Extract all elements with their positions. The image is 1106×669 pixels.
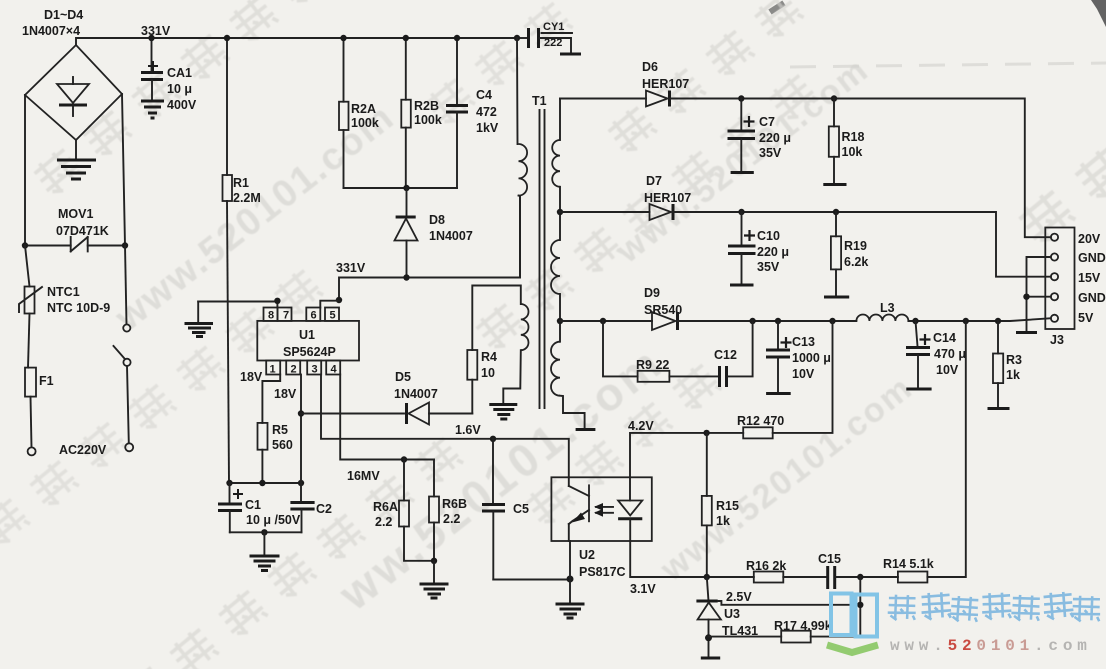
svg-text:2.5V: 2.5V: [726, 590, 752, 604]
logo text blue: [887, 591, 1100, 622]
svg-text:1.6V: 1.6V: [455, 423, 481, 437]
svg-text:R6A: R6A: [373, 500, 398, 514]
wire 18V node: [229, 482, 301, 484]
svg-text:AC220V: AC220V: [59, 443, 107, 457]
svg-text:6: 6: [311, 310, 317, 322]
svg-text:1000 μ: 1000 μ: [792, 351, 831, 365]
svg-text:C10: C10: [757, 229, 780, 243]
wire 20V rail left: [560, 98, 646, 100]
svg-text:3.1V: 3.1V: [630, 582, 656, 596]
node dot R3 top: [995, 318, 1001, 324]
ground below bridge: [57, 160, 96, 179]
wire drain 331V: [339, 196, 520, 300]
capacitor C15: [828, 566, 898, 589]
svg-text:35V: 35V: [759, 146, 782, 160]
wire 5V rail right: [908, 318, 1050, 321]
wire bridge left leg: [24, 95, 26, 246]
svg-text:5V: 5V: [1078, 311, 1094, 325]
svg-text:CY1: CY1: [543, 21, 564, 33]
node dot secondary D7 tap: [557, 209, 563, 215]
node dot clamp/D8: [403, 185, 409, 191]
svg-text:1N4007: 1N4007: [394, 387, 438, 401]
svg-text:1k: 1k: [1006, 368, 1020, 382]
node dot C13 top: [775, 318, 781, 324]
svg-text:4.2V: 4.2V: [628, 419, 654, 433]
svg-text:GND: GND: [1078, 251, 1106, 265]
svg-text:472: 472: [476, 105, 497, 119]
diode D9: [652, 312, 678, 330]
svg-text:18V: 18V: [240, 370, 263, 384]
svg-text:3: 3: [312, 364, 318, 376]
resistor R14: [898, 321, 966, 583]
resistor R3: [988, 321, 1010, 409]
svg-text:T1: T1: [532, 94, 547, 108]
node dot U2 emitter ground: [567, 576, 574, 583]
inductor L3: [856, 315, 908, 322]
svg-text:C15: C15: [818, 552, 841, 566]
node dot C2 top: [298, 480, 304, 486]
T1 secondary winding upper: [552, 99, 560, 213]
resistor R4: [467, 286, 521, 414]
transformer T1 core: [539, 110, 541, 408]
resistor R12: [743, 321, 832, 438]
svg-text:R9 22: R9 22: [636, 358, 669, 372]
node dot R2B top: [403, 35, 409, 41]
svg-text:1kV: 1kV: [476, 121, 499, 135]
node dot secondary D9 tap: [557, 318, 563, 324]
T1 auxiliary winding: [521, 304, 529, 350]
svg-text:GND: GND: [1078, 291, 1106, 305]
node dot C1 top: [226, 480, 232, 486]
node dot R2A top: [340, 35, 346, 41]
wire 1.6V to U2 collector: [493, 439, 569, 478]
U1 pin 2: [286, 361, 300, 375]
svg-text:1k: 1k: [716, 514, 730, 528]
optocoupler U2 PS817C: [551, 477, 651, 579]
node dot R19 top: [833, 209, 839, 215]
capacitor C10: [728, 212, 756, 285]
node dot snubber right: [749, 318, 755, 324]
logo book icon: [827, 594, 878, 653]
U1 pin 8: [264, 308, 278, 321]
svg-text:R5: R5: [272, 423, 288, 437]
diode D5: [407, 403, 473, 425]
svg-text:10: 10: [481, 366, 495, 380]
resistor R6B: [429, 460, 439, 561]
thermistor NTC1: [19, 246, 42, 314]
node dot C15 R14: [857, 574, 863, 580]
wire aux winding to ground: [503, 350, 521, 403]
ground below C1 C2: [250, 532, 280, 570]
U1 pin 5: [325, 308, 339, 321]
wire pin4 to 16MV line: [340, 375, 434, 460]
resistor R17: [709, 631, 861, 643]
wire pin6 tie to pin5: [320, 301, 339, 308]
wire 20V rail: [670, 99, 1051, 238]
svg-text:www.520101.com: www.520101.com: [890, 637, 1092, 655]
node dot C10 top: [738, 209, 744, 215]
shunt regulator U3 TL431: [696, 577, 860, 657]
ground aux winding: [489, 405, 517, 420]
capacitor C4: [446, 38, 468, 188]
node dot CA1 top: [148, 35, 154, 41]
diode D8: [395, 188, 418, 277]
wire 15V rail left: [560, 211, 650, 213]
node dot C7 top: [738, 95, 744, 101]
svg-text:1: 1: [270, 364, 276, 376]
svg-text:C14: C14: [933, 331, 956, 345]
svg-text:R16 2k: R16 2k: [746, 559, 786, 573]
capacitor C1: [218, 483, 243, 532]
svg-text:R3: R3: [1006, 353, 1022, 367]
node dot pin5: [336, 297, 342, 303]
svg-text:J3: J3: [1050, 333, 1064, 347]
node dot R12 top: [829, 318, 835, 324]
svg-text:400V: 400V: [167, 98, 197, 112]
ground below CA1: [141, 101, 164, 118]
svg-text:PS817C: PS817C: [579, 565, 626, 579]
node dot U3 anode R17: [705, 634, 712, 641]
svg-text:1N4007×4: 1N4007×4: [22, 24, 80, 38]
svg-text:R19: R19: [844, 239, 867, 253]
capacitor C13: [766, 321, 792, 394]
svg-text:D7: D7: [646, 174, 662, 188]
svg-text:18V: 18V: [274, 387, 297, 401]
wire 5V rail left: [560, 320, 652, 322]
svg-text:C2: C2: [316, 502, 332, 516]
svg-text:1N4007: 1N4007: [429, 229, 473, 243]
svg-text:D5: D5: [395, 370, 411, 384]
node dot MOV left: [22, 242, 28, 248]
wire pin1 to R5: [262, 375, 280, 423]
diode D6: [646, 91, 670, 107]
node dot R18 top: [831, 95, 837, 101]
svg-text:R2A: R2A: [351, 102, 376, 116]
wire pin2 column: [300, 375, 302, 484]
svg-text:222: 222: [544, 37, 562, 49]
svg-text:2: 2: [291, 364, 297, 376]
svg-text:MOV1: MOV1: [58, 207, 93, 221]
node dot D8 bottom on drain wire: [403, 274, 409, 280]
svg-text:U3: U3: [724, 607, 740, 621]
svg-text:C12: C12: [714, 348, 737, 362]
ground bar J3: [1016, 331, 1037, 334]
capacitor C14: [906, 321, 932, 389]
svg-text:7: 7: [283, 310, 289, 322]
resistor R2B: [401, 38, 411, 188]
svg-text:HER107: HER107: [642, 77, 689, 91]
node dot R6 bottom: [431, 558, 437, 564]
resistor R5: [258, 423, 268, 483]
T1 primary winding: [517, 38, 527, 278]
bridge rectifier D1-D4: [25, 45, 122, 140]
svg-text:16MV: 16MV: [347, 469, 380, 483]
svg-text:15V: 15V: [1078, 271, 1101, 285]
scan artifact band top right: [790, 63, 1106, 67]
svg-text:100k: 100k: [351, 116, 379, 130]
wire 5V rail: [678, 320, 857, 322]
svg-text:5: 5: [330, 310, 336, 322]
svg-text:6.2k: 6.2k: [844, 255, 868, 269]
svg-text:R1: R1: [233, 176, 249, 190]
svg-text:CA1: CA1: [167, 66, 192, 80]
resistor R6A: [399, 460, 434, 561]
node dot J3 gnd: [1023, 294, 1029, 300]
wire D5 anode to pin2: [301, 413, 404, 415]
svg-text:8: 8: [268, 310, 274, 322]
capacitor CA1: [141, 38, 163, 99]
svg-text:35V: 35V: [757, 260, 780, 274]
svg-text:470 μ: 470 μ: [934, 347, 966, 361]
capacitor CY1: [517, 28, 581, 54]
varistor MOV1: [25, 237, 125, 251]
wire pin3 to 1.6V line: [321, 375, 493, 439]
svg-text:2.2: 2.2: [443, 512, 460, 526]
T1 secondary winding middle: [551, 212, 560, 321]
node dot C14 top: [912, 318, 918, 324]
node dot pin8: [274, 298, 280, 304]
U1 pin 1: [266, 361, 280, 375]
svg-text:C1: C1: [245, 498, 261, 512]
svg-text:NTC1: NTC1: [47, 285, 80, 299]
svg-text:C4: C4: [476, 88, 492, 102]
svg-text:C5: C5: [513, 502, 529, 516]
T1 secondary winding lower: [551, 321, 585, 428]
svg-text:100k: 100k: [414, 113, 442, 127]
svg-text:R17 4.99k: R17 4.99k: [774, 619, 832, 633]
capacitor C2: [290, 483, 314, 532]
terminal circle AC right: [125, 443, 133, 451]
svg-text:HER107: HER107: [644, 191, 691, 205]
node dot R6A top: [401, 456, 407, 462]
resistor R18: [823, 99, 846, 185]
node dot CY1/T1 top: [514, 35, 520, 41]
svg-text:10 μ: 10 μ: [167, 82, 192, 96]
capacitor C7: [728, 99, 756, 173]
svg-text:331V: 331V: [336, 261, 366, 275]
svg-text:R12 470: R12 470: [737, 414, 784, 428]
svg-text:2.2M: 2.2M: [233, 191, 261, 205]
node dot R1 top: [224, 35, 230, 41]
node dot 2.5V: [857, 602, 863, 608]
wire 4.2V node: [630, 433, 743, 477]
ground below U2: [556, 580, 585, 619]
resistor R15: [702, 433, 712, 577]
svg-text:07D471K: 07D471K: [56, 224, 109, 238]
connector J3: [1045, 228, 1074, 330]
svg-text:10 μ /50V: 10 μ /50V: [246, 513, 301, 527]
svg-text:D1~D4: D1~D4: [44, 8, 83, 22]
svg-text:560: 560: [272, 438, 293, 452]
node dot MOV right: [122, 242, 128, 248]
svg-text:10V: 10V: [792, 367, 815, 381]
node dot R5 bottom: [259, 480, 265, 486]
svg-text:R15: R15: [716, 499, 739, 513]
wire 2.5V vertical: [859, 577, 861, 637]
svg-text:2.2: 2.2: [375, 515, 392, 529]
wire C1 C2 bottom: [230, 531, 302, 533]
ground bar secondary return: [576, 428, 596, 431]
capacitor C5: [482, 439, 505, 580]
svg-text:SR540: SR540: [644, 303, 682, 317]
ground below U3: [701, 657, 720, 660]
svg-text:L3: L3: [880, 301, 895, 315]
svg-text:D6: D6: [642, 60, 658, 74]
node dot C5 top: [490, 436, 496, 442]
svg-text:F1: F1: [39, 374, 54, 388]
wire ground to pin8: [198, 302, 277, 308]
node dot C4 top: [454, 35, 460, 41]
svg-text:SP5624P: SP5624P: [283, 345, 336, 359]
U1 pin 4: [326, 361, 340, 375]
wire J3 gnd pins: [1027, 257, 1051, 331]
node dot pin2 D5: [298, 410, 304, 416]
fuse F1: [25, 314, 36, 448]
svg-text:220 μ: 220 μ: [759, 131, 791, 145]
svg-text:R14 5.1k: R14 5.1k: [883, 557, 934, 571]
ground below R6: [420, 561, 449, 598]
switch SW: [114, 246, 131, 444]
svg-text:10k: 10k: [842, 145, 863, 159]
resistor R19: [824, 212, 849, 297]
svg-text:R6B: R6B: [442, 497, 467, 511]
wire 3.1V node: [630, 541, 754, 577]
node dot R15 top: [703, 430, 709, 436]
ground at U1 pin8: [185, 302, 214, 337]
wire clamp bottom: [344, 187, 458, 189]
U1 pin 7: [278, 308, 292, 321]
svg-text:C7: C7: [759, 115, 775, 129]
wire 15V rail: [673, 212, 1051, 277]
svg-text:C13: C13: [792, 335, 815, 349]
node dot R9 tap: [600, 318, 606, 324]
svg-text:331V: 331V: [141, 24, 171, 38]
svg-text:D9: D9: [644, 286, 660, 300]
U1 pin 6: [306, 308, 320, 321]
svg-text:NTC 10D-9: NTC 10D-9: [47, 301, 110, 315]
resistor R2A: [339, 38, 349, 188]
node dot R15 bottom: [704, 574, 710, 580]
terminal circle AC left: [28, 447, 36, 455]
svg-text:20V: 20V: [1078, 232, 1101, 246]
svg-text:D8: D8: [429, 213, 445, 227]
svg-text:R4: R4: [481, 350, 497, 364]
svg-text:4: 4: [331, 364, 338, 376]
wire bridge right leg: [122, 94, 125, 246]
wire C5 to U2 emitter node: [493, 579, 570, 581]
resistor R1: [223, 38, 233, 483]
resistor R9 snubber: [603, 321, 718, 382]
svg-text:R18: R18: [842, 130, 865, 144]
svg-text:220 μ: 220 μ: [757, 245, 789, 259]
capacitor C12: [720, 321, 753, 387]
resistor R16: [754, 572, 826, 583]
wire bridge bottom to ground: [75, 140, 77, 158]
wire top rail: [76, 38, 517, 45]
svg-text:U1: U1: [299, 328, 315, 342]
node dot ground C1C2: [261, 529, 267, 535]
svg-text:10V: 10V: [936, 363, 959, 377]
U1 pin 3: [307, 361, 321, 375]
scan corner blob top right: [1091, 0, 1106, 27]
node dot R14 top: [963, 318, 969, 324]
svg-text:R2B: R2B: [414, 99, 439, 113]
diode D7: [650, 204, 674, 220]
svg-text:U2: U2: [579, 548, 595, 562]
IC U1 SP5624P body: [257, 321, 359, 361]
